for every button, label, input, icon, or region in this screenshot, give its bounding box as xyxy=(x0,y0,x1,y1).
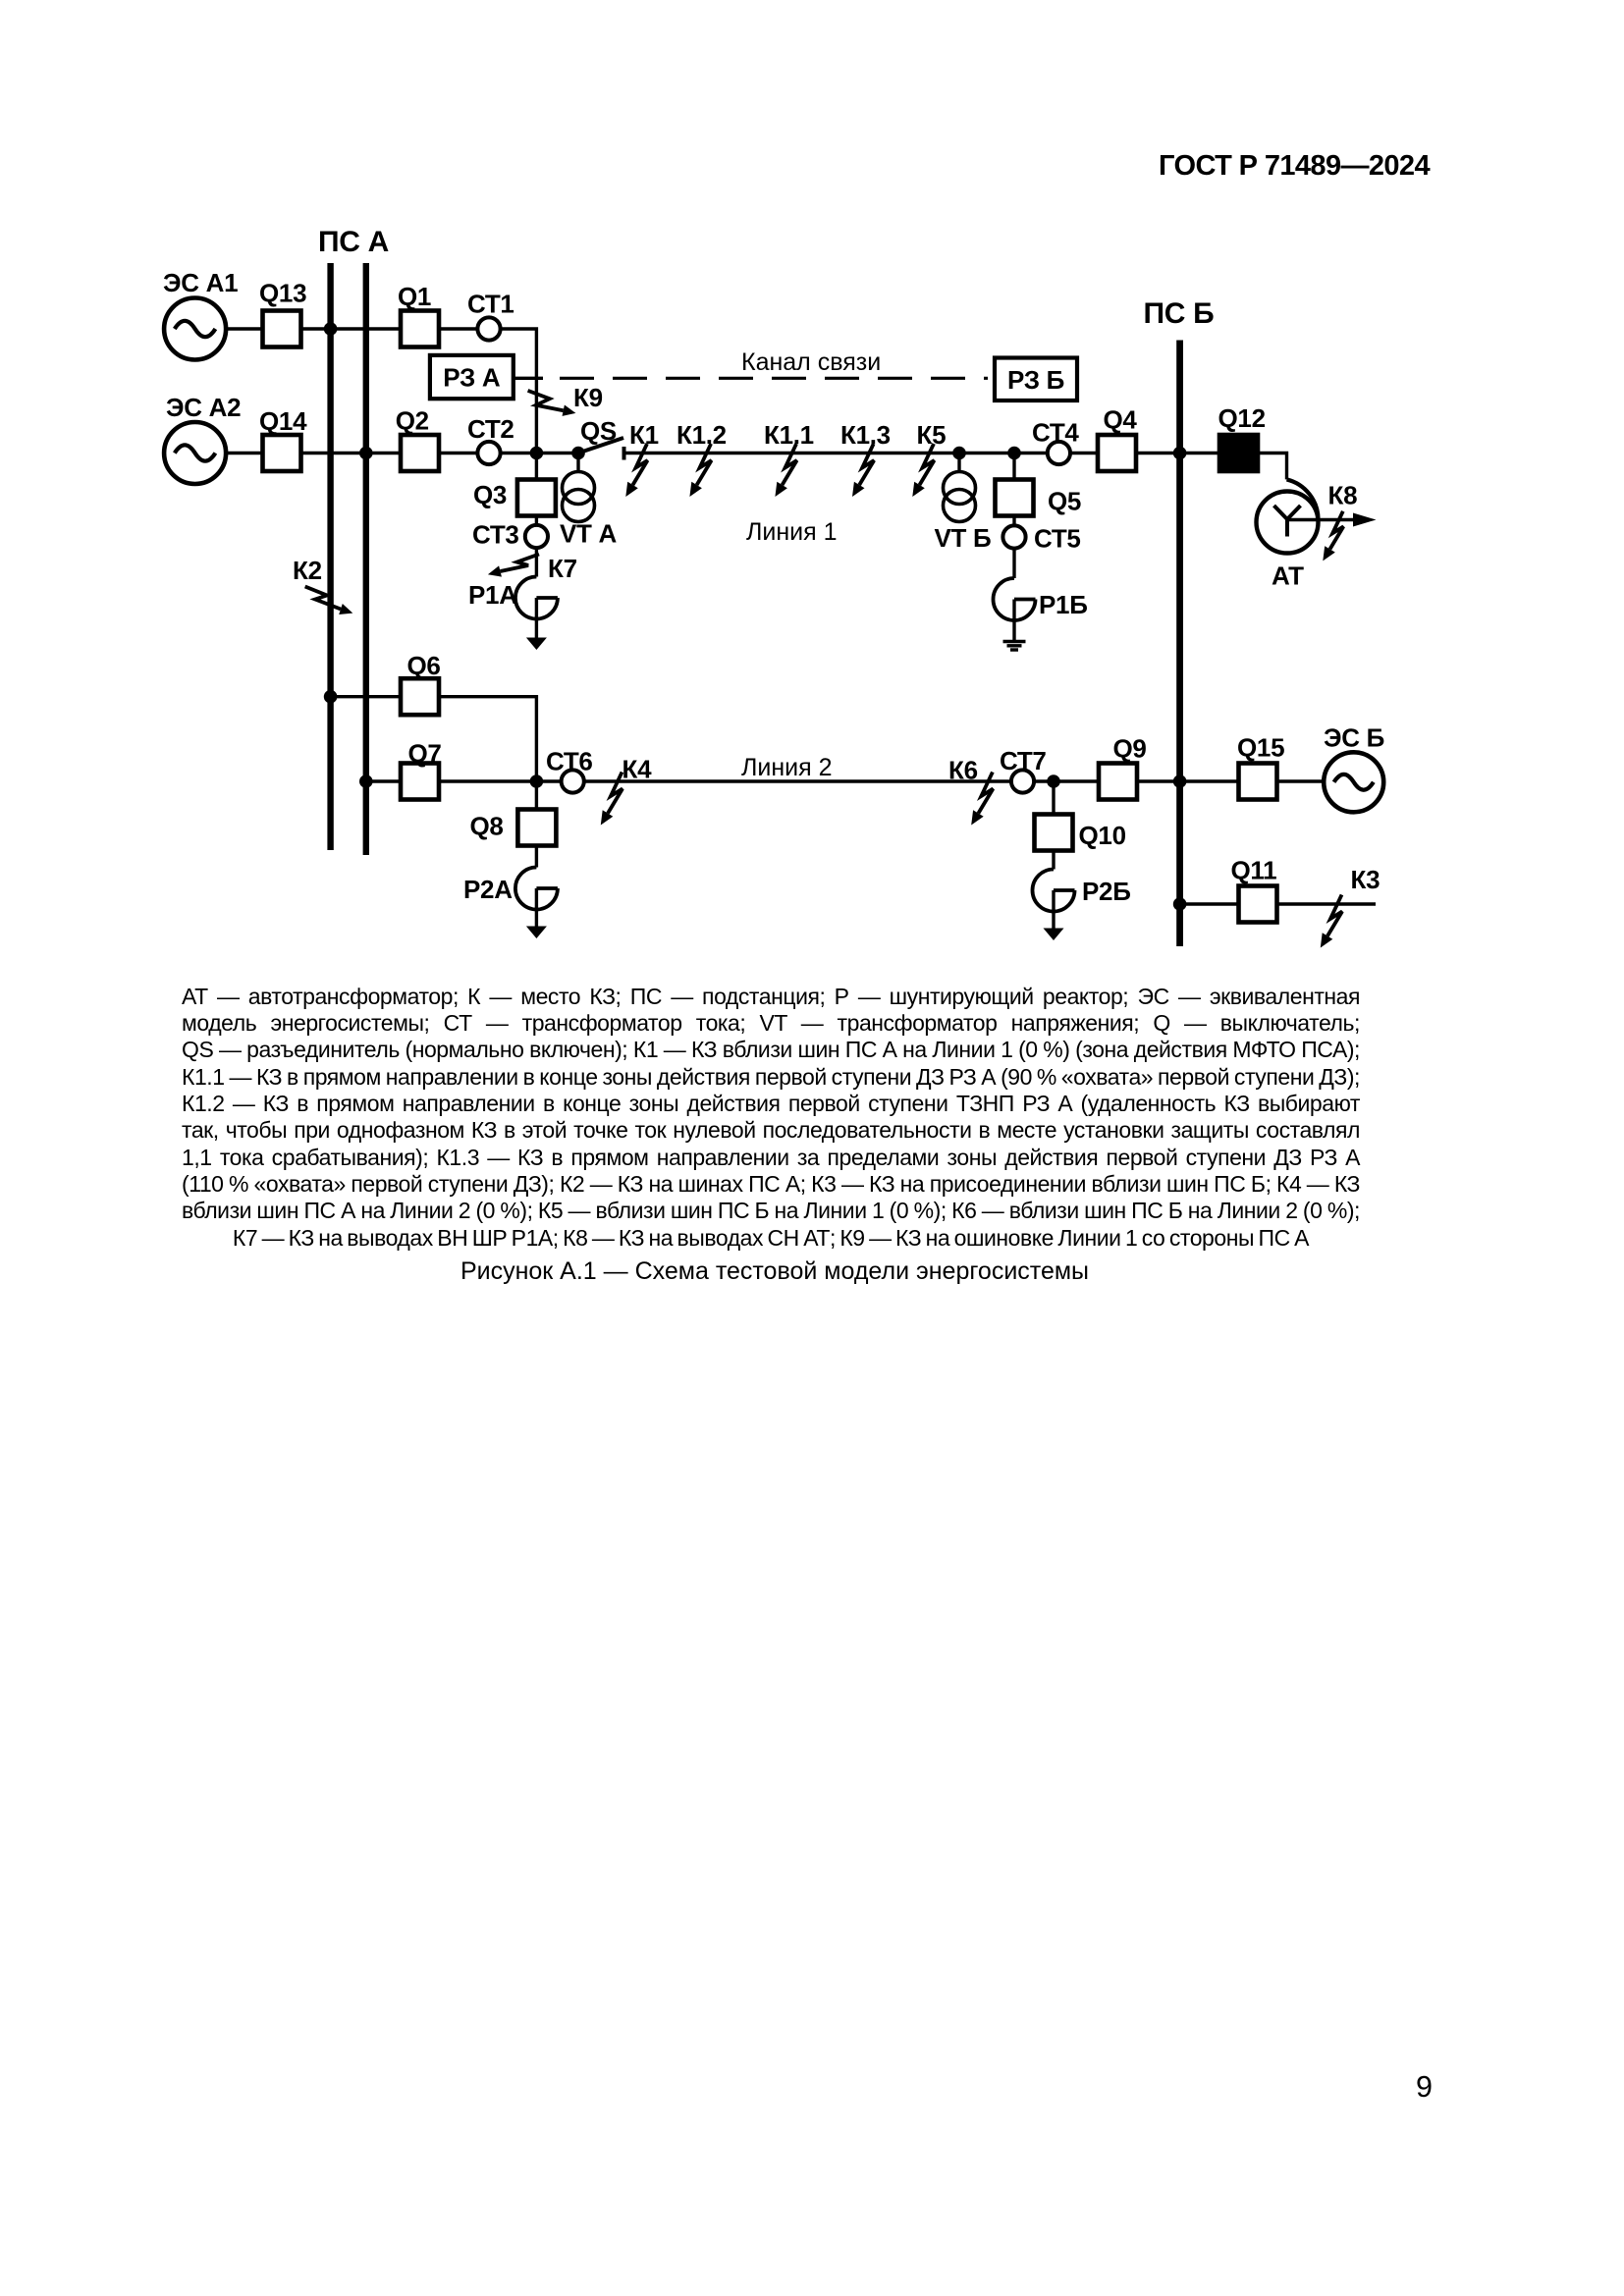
svg-text:Q2: Q2 xyxy=(396,406,429,436)
ground (earth) below Р1Б xyxy=(1003,640,1026,650)
svg-text:К9: К9 xyxy=(573,383,603,412)
voltage transformer VT Б xyxy=(935,454,992,554)
svg-text:Р2Б: Р2Б xyxy=(1082,877,1131,906)
wire ЭС А2 to Q14 xyxy=(226,452,262,454)
svg-text:К7: К7 xyxy=(548,554,577,583)
breaker Q13 xyxy=(259,279,306,347)
fault К6 xyxy=(948,756,993,826)
svg-text:ЭС А2: ЭС А2 xyxy=(166,393,241,422)
junction on bus ПС Б (Q11 row) xyxy=(1173,897,1187,911)
junction on right bus (Линия 2) xyxy=(359,774,373,788)
wire left bus to Q6 xyxy=(331,695,401,698)
shunt reactor Р1Б xyxy=(994,578,1088,620)
current transformer СТ7 xyxy=(1000,746,1047,793)
junction on left bus (Q6 row) xyxy=(324,690,338,704)
svg-text:VT Б: VT Б xyxy=(935,523,992,553)
fault К7 xyxy=(488,554,577,583)
svg-text:К5: К5 xyxy=(917,420,947,450)
breaker Q6 xyxy=(401,651,441,715)
breaker Q11 xyxy=(1231,856,1277,923)
ground arrow below Р2Б xyxy=(1044,890,1064,940)
current transformer СТ2 xyxy=(467,414,514,464)
wire Q10 to reactor Р2Б xyxy=(1052,851,1055,870)
svg-text:Q15: Q15 xyxy=(1237,733,1284,763)
wire Q8 to reactor Р2А xyxy=(535,846,538,868)
junction VT A tap / QS hinge xyxy=(571,447,585,460)
relay РЗ А xyxy=(430,355,514,399)
generator ЭС А2 xyxy=(164,393,241,484)
svg-text:Q6: Q6 xyxy=(407,651,441,680)
ground arrow below Р2А xyxy=(526,888,547,938)
svg-text:ЭС А1: ЭС А1 xyxy=(163,268,238,297)
svg-text:К1: К1 xyxy=(629,420,659,450)
svg-text:РЗ Б: РЗ Б xyxy=(1007,365,1064,395)
wire Q9 to Q15 across bus ПС Б xyxy=(1137,779,1239,782)
svg-text:Q4: Q4 xyxy=(1104,405,1138,435)
svg-text:Р1Б: Р1Б xyxy=(1039,590,1088,619)
junction on left bus (row 1) xyxy=(324,322,338,336)
junction on right bus (row 2) xyxy=(359,447,373,460)
svg-text:К3: К3 xyxy=(1351,865,1380,894)
fault К1.3 xyxy=(840,420,891,497)
wire Q14 to Q2 across buses xyxy=(301,452,402,454)
wire СТ2 to QS xyxy=(501,452,578,454)
wire Q1 to СТ1 xyxy=(439,327,477,330)
wire Q7 to СТ6 xyxy=(439,779,562,782)
svg-text:К4: К4 xyxy=(623,755,653,784)
disconnector QS (normally closed) xyxy=(578,416,624,460)
svg-text:К1.1: К1.1 xyxy=(764,420,814,450)
fault К1 xyxy=(625,420,658,497)
svg-text:ГОСТ Р 71489—2024: ГОСТ Р 71489—2024 xyxy=(1159,150,1430,182)
wire СТ5 to reactor Р1Б xyxy=(1012,549,1015,579)
breaker Q15 xyxy=(1237,733,1284,800)
fault К2 on ПС А buses xyxy=(293,556,352,614)
svg-text:Q11: Q11 xyxy=(1231,856,1277,885)
svg-text:Канал связи: Канал связи xyxy=(741,348,881,376)
fault К3 xyxy=(1321,865,1380,948)
current transformer СТ5 xyxy=(1002,516,1080,554)
breaker Q14 xyxy=(259,406,307,471)
svg-text:СТ7: СТ7 xyxy=(1000,746,1047,775)
fault К1.1 xyxy=(764,420,814,497)
junction Линия 1 on bus ПС Б xyxy=(1173,447,1187,460)
wire СТ7 to Q9 xyxy=(1034,779,1099,782)
generator ЭС А1 xyxy=(163,268,238,360)
svg-text:СТ2: СТ2 xyxy=(467,414,514,444)
shunt reactor Р1А xyxy=(468,577,558,619)
svg-text:Q14: Q14 xyxy=(259,406,307,436)
breaker Q1 xyxy=(398,282,439,347)
current transformer СТ6 xyxy=(546,747,593,793)
svg-text:Q10: Q10 xyxy=(1079,821,1126,850)
svg-text:СТ5: СТ5 xyxy=(1034,524,1081,554)
wire Q12 to АТ xyxy=(1258,454,1287,480)
wire Линия 2 main span xyxy=(584,779,1011,782)
generator ЭС Б xyxy=(1324,723,1384,813)
autotransformer АТ xyxy=(1257,479,1319,590)
junction Q8 tap on Линия 2 xyxy=(530,774,544,788)
wire АТ medium-voltage output with arrow xyxy=(1287,513,1377,527)
breaker Q4 xyxy=(1098,405,1137,472)
svg-text:Линия 2: Линия 2 xyxy=(741,754,833,781)
breaker Q2 xyxy=(396,406,439,471)
breaker Q10 xyxy=(1035,781,1126,851)
wire bus to Q11 xyxy=(1180,902,1239,905)
fault К8 xyxy=(1323,481,1357,561)
breaker Q7 xyxy=(401,739,442,800)
svg-text:Q1: Q1 xyxy=(398,282,431,311)
wire Q13 to Q1 across buses xyxy=(301,327,402,330)
junction СТ1-branch on Линия 1 xyxy=(530,447,544,460)
junction VT Б tap xyxy=(952,447,966,460)
svg-text:РЗ А: РЗ А xyxy=(443,363,501,393)
bus ПС Б with label xyxy=(1144,297,1215,946)
fault К1.2 xyxy=(677,420,727,497)
shunt reactor Р2А xyxy=(463,868,558,910)
fault К5 xyxy=(912,420,946,497)
svg-text:К1.2: К1.2 xyxy=(677,420,727,450)
bus ПС А (two sections with label) xyxy=(318,226,389,855)
svg-text:ПС А: ПС А xyxy=(318,226,389,258)
wire СТ3 to reactor Р1А xyxy=(535,548,538,577)
wire Q4 to Q12 across bus ПС Б xyxy=(1136,452,1219,454)
svg-text:Р1А: Р1А xyxy=(468,580,517,610)
svg-text:АТ: АТ xyxy=(1272,561,1304,591)
svg-text:К2: К2 xyxy=(293,556,322,585)
svg-text:Q13: Q13 xyxy=(259,279,306,308)
svg-text:СТ1: СТ1 xyxy=(467,290,514,319)
ground arrow below Р1А xyxy=(526,598,547,650)
fault К4 xyxy=(601,755,652,826)
wire СТ4 to Q4 xyxy=(1070,452,1098,454)
wire Р1Б to ground xyxy=(1012,600,1015,641)
svg-text:СТ4: СТ4 xyxy=(1032,418,1079,448)
fault К9 on Линия 1 busbar side ПС А xyxy=(528,383,603,416)
relay РЗ Б xyxy=(995,358,1077,401)
svg-text:QS: QS xyxy=(580,416,617,446)
svg-text:ЭС Б: ЭС Б xyxy=(1324,723,1384,753)
wire Линия 1 main span xyxy=(624,452,1048,454)
current transformer СТ1 xyxy=(467,290,514,341)
svg-text:Q12: Q12 xyxy=(1218,403,1266,433)
wire СТ1 to corner down to Линия 1 xyxy=(501,329,537,454)
svg-text:Q9: Q9 xyxy=(1113,734,1147,764)
svg-text:Q7: Q7 xyxy=(408,739,442,769)
svg-text:Q8: Q8 xyxy=(470,812,504,841)
breaker Q12 (closed/filled) xyxy=(1218,403,1266,471)
wire ЭС А1 to Q13 xyxy=(226,327,262,330)
current transformer СТ4 xyxy=(1032,418,1079,465)
junction Q10 tap xyxy=(1047,774,1060,788)
voltage transformer VT А xyxy=(560,454,618,549)
shunt reactor Р2Б xyxy=(1033,870,1131,912)
svg-text:Q5: Q5 xyxy=(1048,487,1081,516)
communication channel Канал связи (dashed) xyxy=(560,348,988,378)
breaker Q5 xyxy=(996,454,1082,516)
breaker Q9 xyxy=(1099,734,1147,800)
wire Q15 to ЭС Б xyxy=(1277,779,1325,782)
svg-text:К8: К8 xyxy=(1328,481,1358,510)
wire Q6 corner down to Линия 2 xyxy=(439,697,536,781)
junction Q5 tap xyxy=(1007,447,1021,460)
svg-text:VT А: VT А xyxy=(560,519,618,549)
breaker Q8 xyxy=(470,781,557,846)
svg-text:Линия 1: Линия 1 xyxy=(746,518,838,546)
wire РЗ А output xyxy=(514,377,543,380)
svg-text:Р2А: Р2А xyxy=(463,875,513,904)
svg-text:СТ6: СТ6 xyxy=(546,747,593,776)
svg-text:Q3: Q3 xyxy=(473,480,507,509)
wire Q11 feeder xyxy=(1277,902,1377,905)
svg-text:К1.3: К1.3 xyxy=(840,420,891,450)
wire right bus to Q7 xyxy=(366,779,401,782)
svg-text:СТ3: СТ3 xyxy=(472,520,519,550)
svg-text:ПС Б: ПС Б xyxy=(1144,297,1215,330)
junction Линия 2 on bus ПС Б xyxy=(1173,774,1187,788)
svg-text:К6: К6 xyxy=(948,756,978,785)
wire Q2 to СТ2 xyxy=(439,452,477,454)
breaker Q3 xyxy=(473,454,556,516)
current transformer СТ3 xyxy=(472,516,548,550)
